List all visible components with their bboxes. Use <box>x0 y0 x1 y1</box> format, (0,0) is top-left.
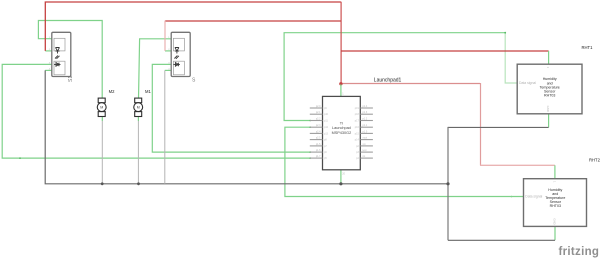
wire green M2 feed from S1 pin1 <box>38 21 102 100</box>
optocoupler S1 <box>49 32 74 82</box>
wire green Launchpad bottom pin <box>340 170 342 184</box>
svg-text:p15: p15 <box>355 132 360 135</box>
svg-text:RHT03: RHT03 <box>550 204 561 208</box>
left pins <box>310 108 323 158</box>
svg-text:20: 20 <box>342 173 345 176</box>
svg-text:M: M <box>100 106 103 110</box>
svg-text:Launchpad: Launchpad <box>332 126 351 130</box>
junction dot red at Launchpad top pin <box>339 82 342 85</box>
svg-text:p2.5: p2.5 <box>316 137 321 140</box>
svg-text:M2: M2 <box>109 89 115 94</box>
wire pale red to RHT2 VDD <box>341 83 480 85</box>
junction dot bus M2 <box>101 182 104 185</box>
svg-text:p14: p14 <box>355 139 360 142</box>
svg-text:Data signal: Data signal <box>525 195 542 199</box>
wire pale red drop to S2 pin2 <box>164 21 166 51</box>
svg-text:Data signal: Data signal <box>519 81 536 85</box>
svg-text:p16: p16 <box>355 126 360 129</box>
wire green stub RHT1 GND pin <box>548 114 550 128</box>
wire pale red drop toward RHT2 <box>480 83 482 165</box>
IC centre text <box>332 122 352 135</box>
svg-text:p2.4: p2.4 <box>316 130 321 133</box>
wire end dot green <box>504 32 506 34</box>
svg-text:Launchpad1: Launchpad1 <box>374 77 402 83</box>
wire green stub M2 bottom pin <box>101 117 103 122</box>
wire green S1 pin3 to IC left pin9 <box>2 64 310 158</box>
svg-text:TI: TI <box>340 122 343 126</box>
wire very pale red into RHT2 VDD <box>480 164 555 166</box>
svg-text:S: S <box>192 77 196 83</box>
svg-text:p11: p11 <box>324 120 328 123</box>
svg-text:RHT03: RHT03 <box>544 94 555 98</box>
wire gray M1 to bus <box>137 121 139 184</box>
svg-text:p2.1: p2.1 <box>316 111 321 114</box>
svg-text:p1.1: p1.1 <box>363 124 368 127</box>
wire green S2 pin3 to IC left pin8 <box>152 64 310 152</box>
sensor RHT1 <box>517 45 593 114</box>
wire green Launchpad top pin <box>340 84 342 96</box>
wire red main rail from S1 pin2 to Launchpad top <box>45 2 341 51</box>
IC U1 TI Launchpad MSP430G2 <box>310 77 402 175</box>
wire green stub RHT1 VDD pin <box>548 51 550 64</box>
svg-text:p2.0: p2.0 <box>316 105 321 108</box>
wire black RHT1 GND to left <box>448 126 549 128</box>
bendpoint dot on RHT2 data wire <box>511 196 513 198</box>
svg-text:MSP430G2: MSP430G2 <box>332 131 352 135</box>
wire green stub S1 pin4 <box>45 69 52 71</box>
wire gray M2 to bus <box>101 121 103 184</box>
svg-text:p19: p19 <box>355 107 360 110</box>
wire green stub RHT2 VDD pin <box>554 165 556 178</box>
right pin inside labels <box>355 107 360 160</box>
wire green stub RHT2 GND pin <box>554 226 556 240</box>
svg-text:p17: p17 <box>355 120 360 123</box>
svg-text:p1.2: p1.2 <box>363 118 368 121</box>
wire green stub M1 bottom pin <box>137 117 139 122</box>
junction dot bus Launchpad GND <box>339 182 342 185</box>
wire green stub S1 pin2 <box>45 50 52 52</box>
wire green stub S2 pin4 <box>165 69 171 71</box>
svg-text:RHT2: RHT2 <box>589 157 600 162</box>
wire green M1 feed from S2 pin1 <box>139 39 172 99</box>
wire green stub S2 pin2 <box>165 50 171 52</box>
svg-text:rst: rst <box>363 155 366 158</box>
svg-text:p13: p13 <box>324 132 329 135</box>
svg-text:xout: xout <box>363 137 368 140</box>
svg-text:p18: p18 <box>355 113 360 116</box>
svg-text:S1: S1 <box>68 76 74 82</box>
svg-text:p2.3: p2.3 <box>316 124 321 127</box>
svg-text:p1.5: p1.5 <box>316 143 321 146</box>
svg-text:fritzing: fritzing <box>559 246 600 258</box>
motor M2 <box>97 89 115 117</box>
sensor RHT2 <box>524 157 600 226</box>
wire red drop to Launchpad top pin <box>340 2 342 84</box>
wire black ground bus from S1 pin4 <box>45 70 448 183</box>
motor M1 <box>134 89 152 117</box>
wire end dots green at IC pins <box>309 120 311 159</box>
svg-text:p1.7: p1.7 <box>316 155 321 158</box>
wire pale red from S2 pin2 to red rail <box>165 20 341 22</box>
svg-text:1: 1 <box>342 93 344 96</box>
svg-text:p1.0: p1.0 <box>363 130 368 133</box>
svg-text:GND: GND <box>546 106 550 112</box>
junction dot bus M1 <box>137 182 140 185</box>
wire black bottom to RHT2 GND <box>448 239 555 241</box>
wire gray S2 pin4 to bus <box>164 70 166 183</box>
wire pale green to RHT1 data <box>505 33 517 83</box>
svg-text:p10: p10 <box>324 113 329 116</box>
svg-text:M: M <box>137 106 140 110</box>
right pins <box>360 108 373 158</box>
wire pale red to RHT1 VDD <box>341 50 549 52</box>
svg-text:p12: p12 <box>324 126 329 129</box>
wire black vertical down right side <box>447 127 449 240</box>
wire green IC left pin3 to RHT1 data <box>284 33 505 121</box>
svg-text:GND: GND <box>553 218 557 224</box>
svg-text:test: test <box>363 149 367 152</box>
svg-text:p2.2: p2.2 <box>316 118 321 121</box>
optocoupler S2 <box>168 32 196 83</box>
left pin inside labels <box>324 107 329 160</box>
right pin outside labels <box>363 105 368 158</box>
svg-text:RHT1: RHT1 <box>582 45 594 50</box>
wire green IC left pin4 to RHT2 data <box>285 127 524 196</box>
svg-text:p1.6: p1.6 <box>316 149 321 152</box>
junction dot bus right corner <box>446 182 449 185</box>
svg-text:p1.4: p1.4 <box>363 105 368 108</box>
left pin outside labels <box>316 105 321 158</box>
svg-text:p1.3: p1.3 <box>363 111 368 114</box>
bendpoint on green wire <box>19 157 21 159</box>
svg-text:M1: M1 <box>145 89 151 94</box>
